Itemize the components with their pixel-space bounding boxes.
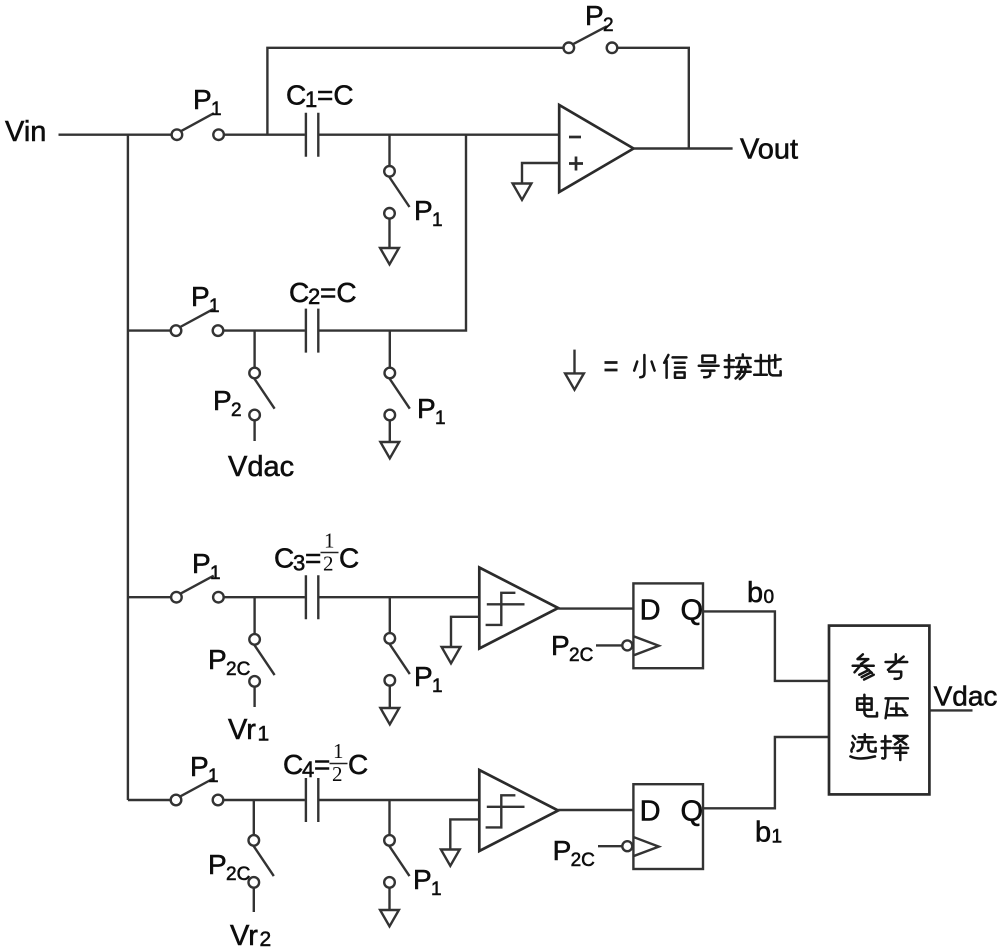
wire switch to Vr2 terminal <box>253 888 255 912</box>
svg-text:1: 1 <box>305 87 317 112</box>
wire feedback upper left (tap at x=267 up and across to P2) <box>267 48 563 135</box>
capacitor C2 <box>306 309 318 353</box>
wire P2C to U2 clock <box>596 644 622 646</box>
node Vdac (output) <box>934 681 998 712</box>
svg-text:2C: 2C <box>571 850 595 871</box>
label P2 (feedback switch) <box>585 0 614 36</box>
svg-text:P: P <box>414 661 433 692</box>
wire switch to ground row4 <box>388 888 390 910</box>
ground (legend symbol) <box>565 350 584 390</box>
svg-text:2C: 2C <box>569 645 593 666</box>
svg-text:1: 1 <box>210 563 221 584</box>
wire Vdac output <box>929 709 972 711</box>
clock bubble U2 <box>622 640 632 650</box>
svg-text:Vr: Vr <box>228 714 256 746</box>
wire switch to C3 <box>224 596 305 598</box>
svg-text:D: D <box>640 595 661 627</box>
wire row4 node down to P1 switch <box>388 800 390 835</box>
label P1 (S3) <box>191 281 220 317</box>
D flip-flop U2 <box>633 583 703 668</box>
switch S6 P1 row 3 <box>171 576 224 603</box>
node Vdac (row2 input) <box>228 451 294 483</box>
svg-text:P: P <box>553 835 572 866</box>
label C3=1/2C <box>274 529 359 576</box>
svg-text:=C: =C <box>320 277 357 308</box>
svg-text:=: = <box>305 543 321 574</box>
wire C4 to comparator <box>319 799 479 801</box>
svg-text:b: b <box>755 817 771 849</box>
svg-text:P: P <box>417 393 436 424</box>
wire bus to switch P1 row 2 <box>128 329 171 331</box>
capacitor C4 <box>306 778 318 822</box>
svg-text:1: 1 <box>431 879 442 900</box>
wire row2 node down to P2 switch <box>253 331 255 368</box>
svg-text:Q: Q <box>681 795 704 827</box>
wire U3 Q to reference selection (net b1) <box>703 737 829 808</box>
wire switch to ground row2 <box>389 420 391 442</box>
label P1 (S8) <box>414 661 443 697</box>
wire switch to C4 <box>224 799 305 801</box>
switch S11 P2C (Vr2 injection) <box>249 835 274 888</box>
block U4 reference voltage selection (参考电压选择) <box>829 626 929 795</box>
wire U2 Q to reference selection (net b0) <box>703 611 829 681</box>
svg-text:C: C <box>283 749 303 780</box>
svg-text:C: C <box>339 543 359 574</box>
svg-text:P: P <box>208 644 227 675</box>
svg-text:2: 2 <box>332 762 343 786</box>
svg-text:2: 2 <box>603 15 614 36</box>
svg-text:1: 1 <box>209 296 220 317</box>
svg-text:P: P <box>413 864 432 895</box>
switch S12 P1 (row4 to ground) <box>384 835 409 888</box>
label P1 (S12) <box>413 864 442 900</box>
svg-text:=C: =C <box>317 80 354 111</box>
svg-text:1: 1 <box>324 529 335 553</box>
svg-text:2: 2 <box>323 552 334 576</box>
svg-text:1: 1 <box>333 739 344 763</box>
ground (row2 discharge) <box>380 442 399 458</box>
svg-text:1: 1 <box>432 676 443 697</box>
switch S9 P2 (feedback) <box>564 26 618 53</box>
comparator A1 <box>479 568 558 649</box>
D flip-flop U3 <box>633 784 703 869</box>
label P1 (S6) <box>192 548 221 584</box>
svg-text:Vdac: Vdac <box>934 681 998 712</box>
svg-text:P: P <box>213 385 232 416</box>
svg-text:C: C <box>274 543 294 574</box>
switch S10 P1 row 4 <box>171 779 224 806</box>
svg-text:C: C <box>348 749 368 780</box>
label P1 (S10) <box>190 751 219 787</box>
wire P2C to U3 clock <box>598 845 622 847</box>
ground (comparator A1 reference) <box>442 647 461 663</box>
svg-text:P: P <box>414 195 433 226</box>
svg-text:1: 1 <box>435 408 446 429</box>
wire row4 node down to P2C switch <box>253 800 255 835</box>
ground (comparator A2 reference) <box>441 850 460 866</box>
wire C2 right plate to row1 riser <box>319 135 466 331</box>
svg-text:2: 2 <box>308 284 320 309</box>
svg-text:P: P <box>208 849 227 880</box>
wire op-amp output <box>634 147 733 149</box>
label C2=C <box>289 277 357 309</box>
svg-text:1: 1 <box>772 827 783 848</box>
switch S4 P2 (Vdac injection) <box>249 368 274 421</box>
wire comparator A1 output to DFF1 D <box>558 607 633 609</box>
svg-text:1: 1 <box>208 766 219 787</box>
label C1=C <box>286 80 354 113</box>
svg-text:P: P <box>193 84 212 115</box>
switch S1 P1 row 1 <box>172 113 224 140</box>
node Vout <box>740 134 798 166</box>
wire switch to ground row3 <box>389 686 391 708</box>
label C4=1/2C <box>283 739 368 786</box>
wire switch to Vdac terminal <box>253 420 255 441</box>
wire row3 node down to P1 switch <box>389 597 391 633</box>
switch S3 P1 row 2 <box>171 309 224 336</box>
wire switch to C1 <box>224 133 305 135</box>
svg-text:2: 2 <box>231 400 242 421</box>
svg-text:0: 0 <box>764 587 775 608</box>
wire switch to C2 <box>224 329 305 331</box>
ground (op-amp + input, small-signal ground) <box>513 184 532 200</box>
switch S8 P1 (row3 to ground) <box>385 633 410 686</box>
label P2C (U3 clock) <box>553 835 595 871</box>
label P2 (S4) <box>213 385 242 421</box>
svg-text:2: 2 <box>260 928 272 949</box>
svg-text:4: 4 <box>302 757 314 782</box>
ground (row3 discharge) <box>380 708 399 724</box>
svg-text:D: D <box>640 795 661 827</box>
svg-text:2C: 2C <box>226 659 250 680</box>
svg-text:Vin: Vin <box>5 116 46 148</box>
svg-text:Q: Q <box>681 595 704 627</box>
wire bus corner to switch P1 row 4 <box>128 799 171 801</box>
switch S5 P1 (row2 to ground) <box>385 368 410 421</box>
ground (row1 discharge) <box>380 248 399 264</box>
svg-text:P: P <box>190 751 209 782</box>
node Vin <box>5 116 46 148</box>
svg-text:=: = <box>314 749 330 780</box>
capacitor C1 <box>306 113 318 157</box>
wire comparator A2 reference stub <box>450 819 479 849</box>
node Vr2 <box>230 920 271 949</box>
svg-text:C: C <box>286 80 306 111</box>
label P2C (U2 clock) <box>551 630 593 666</box>
wire C1 to op-amp inverting input <box>319 133 559 135</box>
wire bus to switch P1 row 3 <box>128 596 171 598</box>
switch S7 P2C (Vr1 injection) <box>249 634 274 687</box>
op-amp U1 <box>559 105 633 192</box>
node Vr1 <box>228 714 269 746</box>
svg-text:Vdac: Vdac <box>228 451 294 483</box>
ground (row4 discharge) <box>380 910 399 926</box>
label P1 (S5) <box>417 393 446 429</box>
label P2C (S11) <box>208 849 250 885</box>
svg-text:Vr: Vr <box>230 920 258 949</box>
svg-text:1: 1 <box>211 99 222 120</box>
switch S2 P1 (row1 to ground) <box>384 166 409 219</box>
clock bubble U3 <box>622 841 632 851</box>
label P1 (S1) <box>193 84 222 120</box>
svg-text:P: P <box>191 281 210 312</box>
node b1 <box>755 817 782 849</box>
wire switch to ground row1 <box>388 219 390 248</box>
svg-text:C: C <box>289 277 309 308</box>
wire op-amp non-inverting input stub <box>522 163 559 184</box>
wire row1 top-plate node down to switch <box>388 135 390 167</box>
svg-text:b: b <box>747 577 763 609</box>
svg-text:2C: 2C <box>226 864 250 885</box>
svg-text:1: 1 <box>432 210 443 231</box>
svg-text:3: 3 <box>293 551 305 576</box>
wire switch to Vr1 terminal <box>253 687 255 707</box>
label P2C (S7) <box>208 644 250 680</box>
node b0 <box>747 577 774 609</box>
comparator A2 <box>479 770 558 851</box>
wire C3 to comparator <box>319 596 479 598</box>
wire feedback right segment down to output <box>617 48 688 149</box>
svg-text:P: P <box>192 548 211 579</box>
legend text = 小信号接地 (small-signal ground) <box>605 354 781 379</box>
wire row3 node down to P2C switch <box>253 597 255 634</box>
svg-text:P: P <box>585 0 604 31</box>
wire Vin to switch P1 row 1 <box>59 133 172 135</box>
svg-text:P: P <box>551 630 570 661</box>
svg-text:1: 1 <box>258 723 270 746</box>
wire comparator A1 reference stub <box>451 617 479 647</box>
wire input bus (Vin vertical distribution) <box>127 135 129 800</box>
wire comparator A2 output to DFF2 D <box>558 809 633 811</box>
svg-text:Vout: Vout <box>740 134 798 166</box>
label P1 (S2) <box>414 195 443 231</box>
wire row2 node down to P1 switch <box>389 331 391 368</box>
capacitor C3 <box>306 575 318 619</box>
